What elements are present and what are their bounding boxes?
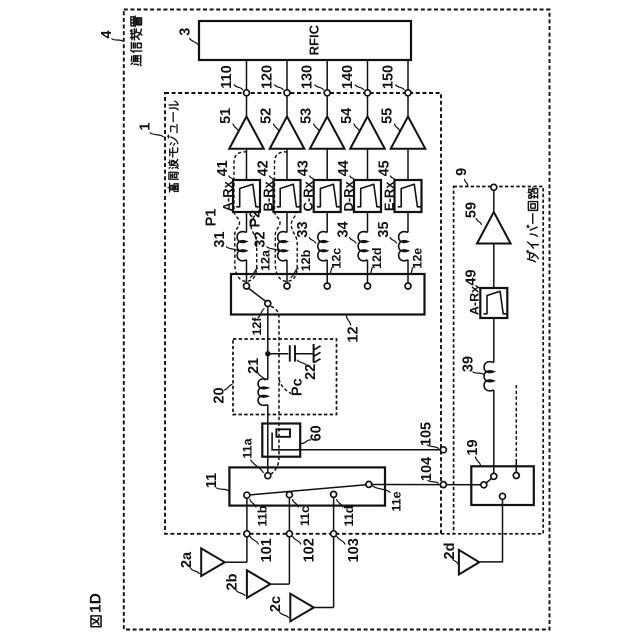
filter 44 D-Rx xyxy=(354,180,381,212)
wire terminal to amp 55 xyxy=(407,96,409,117)
node 11a xyxy=(265,473,271,479)
high-frequency module box 1 xyxy=(165,93,441,534)
svg-text:31: 31 xyxy=(212,231,228,247)
antenna 2a xyxy=(201,548,225,576)
diversity circuit dashed box 9 xyxy=(454,187,544,534)
wire 11b to terminal 101 xyxy=(246,498,248,531)
svg-text:1: 1 xyxy=(138,123,154,131)
svg-text:60: 60 xyxy=(309,425,325,441)
svg-text:12d: 12d xyxy=(370,247,384,269)
svg-text:49: 49 xyxy=(464,269,480,285)
svg-text:12c: 12c xyxy=(330,248,344,269)
node 11e xyxy=(366,481,372,487)
switch arm 11b to 11e xyxy=(250,485,366,495)
svg-text:2a: 2a xyxy=(179,551,195,568)
label tsushin-souchi (communication device) xyxy=(130,16,141,66)
inductor 21 xyxy=(258,379,268,406)
antenna 2c xyxy=(290,594,314,622)
wire inductor 39 to switch 19 xyxy=(493,390,495,473)
dashed alternate line xyxy=(515,385,517,459)
svg-text:2c: 2c xyxy=(268,596,284,612)
svg-text:54: 54 xyxy=(339,108,355,124)
node 19 down contact xyxy=(500,493,506,499)
inductor 34 xyxy=(358,232,367,261)
filter 45 E-Rx xyxy=(395,180,422,212)
wire 11c to terminal 102 xyxy=(288,498,290,531)
dashed path Pc from 12f to 11a xyxy=(271,306,279,474)
antenna 2b xyxy=(247,570,271,598)
svg-text:9: 9 xyxy=(454,168,470,176)
switch arm 12f to 12a xyxy=(249,289,266,302)
wire amp 59 to filter 49 xyxy=(493,244,495,289)
wire terminal to amp 54 xyxy=(367,96,369,117)
node 12a xyxy=(244,283,250,289)
figure title 図1D xyxy=(91,616,101,627)
wire amp to filter 44 xyxy=(367,149,369,180)
svg-text:D-Rx: D-Rx xyxy=(341,180,356,211)
node terminal 103 xyxy=(331,531,337,537)
svg-text:43: 43 xyxy=(296,160,312,176)
filter 43 C-Rx xyxy=(314,180,341,212)
wire inductor to node 12c xyxy=(326,260,328,283)
wire filter to inductor 35 xyxy=(407,212,409,232)
amplifier 55 xyxy=(391,117,426,149)
svg-text:150: 150 xyxy=(381,65,397,89)
label koushuuha-module (high frequency module) xyxy=(168,101,179,192)
svg-text:Pc: Pc xyxy=(290,378,306,396)
node 11b xyxy=(244,492,250,498)
node 12e xyxy=(405,283,411,289)
node 12d xyxy=(365,283,371,289)
wire filter 49 to inductor 39 xyxy=(493,318,495,363)
coupler box 60 xyxy=(262,424,300,457)
svg-text:A-Rx: A-Rx xyxy=(220,180,235,211)
wire RFIC to terminal 120 xyxy=(286,60,288,90)
filter 41 A-Rx xyxy=(233,180,260,212)
wire amp to filter 42 xyxy=(286,149,288,180)
wire RFIC to terminal 110 xyxy=(246,60,248,90)
svg-text:12a: 12a xyxy=(259,249,273,271)
svg-text:11c: 11c xyxy=(298,506,312,526)
node 19 dashed contact xyxy=(513,473,519,479)
svg-text:130: 130 xyxy=(300,65,316,89)
amplifier 53 xyxy=(310,117,345,149)
inductor 33 xyxy=(318,232,327,261)
svg-text:3: 3 xyxy=(178,28,194,36)
amplifier 59 xyxy=(477,212,511,244)
wire amp to filter 41 xyxy=(246,149,248,180)
svg-text:4: 4 xyxy=(99,30,115,38)
group outline P2 xyxy=(275,152,298,281)
svg-text:140: 140 xyxy=(340,65,356,89)
node 12f xyxy=(265,301,271,307)
svg-text:59: 59 xyxy=(464,202,480,218)
wire inductor to node 12b xyxy=(286,260,288,283)
svg-text:19: 19 xyxy=(465,439,481,455)
svg-text:C-Rx: C-Rx xyxy=(301,180,316,211)
svg-text:22: 22 xyxy=(303,364,319,380)
wire RFIC to terminal 140 xyxy=(367,60,369,90)
RFIC U3 xyxy=(199,21,411,60)
inductor 35 xyxy=(399,232,408,261)
svg-text:11a: 11a xyxy=(240,437,254,458)
svg-text:35: 35 xyxy=(376,221,392,237)
node 11d xyxy=(331,491,337,497)
svg-text:P2: P2 xyxy=(247,210,263,228)
svg-text:RFIC: RFIC xyxy=(307,24,322,55)
wire inductor to node 12e xyxy=(407,260,409,283)
svg-text:11d: 11d xyxy=(342,506,356,527)
filter 42 B-Rx xyxy=(274,180,301,212)
node terminal 102 xyxy=(286,531,292,537)
wire filter to inductor 34 xyxy=(367,212,369,232)
node terminal 105 xyxy=(440,447,446,453)
svg-text:11: 11 xyxy=(204,473,220,488)
switch arm in box 19 xyxy=(486,478,491,483)
svg-text:45: 45 xyxy=(377,160,393,176)
node terminal 140 xyxy=(365,90,371,96)
node terminal 150 xyxy=(405,90,411,96)
inductor 31 xyxy=(237,232,246,261)
wire terminal to amp 51 xyxy=(246,96,248,117)
node 12c xyxy=(324,283,330,289)
svg-text:21: 21 xyxy=(246,358,262,374)
svg-text:101: 101 xyxy=(259,538,275,562)
wire filter to inductor 33 xyxy=(326,212,328,232)
wire amp to filter 45 xyxy=(407,149,409,180)
svg-text:104: 104 xyxy=(419,457,435,481)
inductor 32 xyxy=(278,232,287,261)
svg-text:34: 34 xyxy=(336,221,352,237)
node 11c xyxy=(286,492,292,498)
coupler element xyxy=(276,429,290,437)
wire RFIC to terminal 130 xyxy=(326,60,328,90)
wire amp to filter 43 xyxy=(326,149,328,180)
communication device box 4 xyxy=(124,10,550,630)
svg-text:102: 102 xyxy=(302,538,318,562)
matching circuit box 12 xyxy=(231,274,425,315)
diversity switch box 19 xyxy=(471,466,534,505)
inductor 39 xyxy=(484,362,494,391)
node 19 left contact xyxy=(481,482,487,488)
svg-text:12b: 12b xyxy=(299,249,313,271)
wire terminal to amp 52 xyxy=(286,96,288,117)
svg-text:1D: 1D xyxy=(88,593,105,613)
filter 49 A-Rx xyxy=(480,288,507,318)
matching circuit dashed box 20 xyxy=(233,339,337,415)
node terminal 120 xyxy=(284,90,290,96)
wire coupler to terminal 105 xyxy=(300,449,440,451)
svg-text:33: 33 xyxy=(295,221,311,237)
antenna 2d xyxy=(459,550,479,575)
svg-text:12e: 12e xyxy=(411,248,425,269)
svg-text:55: 55 xyxy=(379,108,395,124)
svg-text:105: 105 xyxy=(418,422,434,446)
wire filter to inductor 32 xyxy=(286,212,288,232)
wire 11d to terminal 103 xyxy=(333,498,335,531)
node terminal 104 xyxy=(440,482,446,488)
svg-text:12: 12 xyxy=(346,326,362,342)
wire inductor to node 12d xyxy=(367,260,369,283)
svg-text:E-Rx: E-Rx xyxy=(381,181,396,211)
node diversity output terminal xyxy=(491,184,497,190)
wire filter to inductor 31 xyxy=(246,212,248,232)
svg-text:42: 42 xyxy=(256,160,272,176)
junction node xyxy=(265,351,270,356)
amplifier 54 xyxy=(350,117,385,149)
node 19 up contact xyxy=(491,473,497,479)
wire 11e to diversity switch 19 xyxy=(372,484,481,486)
svg-text:120: 120 xyxy=(260,65,276,89)
wire node 12f down to coupler 60 xyxy=(267,306,269,379)
group outline P1 xyxy=(234,152,257,281)
node terminal 130 xyxy=(324,90,330,96)
node 12b xyxy=(284,283,290,289)
node terminal 110 xyxy=(244,90,250,96)
capacitor 22 xyxy=(268,353,289,355)
svg-text:12f: 12f xyxy=(250,317,264,336)
svg-text:11b: 11b xyxy=(255,505,269,526)
wire inductor to node 12a xyxy=(246,260,248,283)
amplifier 52 xyxy=(270,117,305,149)
svg-text:A-Rx: A-Rx xyxy=(468,286,482,315)
wire terminal to amp 59 xyxy=(493,190,495,212)
svg-text:53: 53 xyxy=(299,108,315,124)
svg-text:2d: 2d xyxy=(442,543,458,560)
antenna switch box 11 xyxy=(229,467,385,505)
svg-text:52: 52 xyxy=(258,108,274,124)
ground xyxy=(313,344,315,363)
wire RFIC to terminal 150 xyxy=(407,60,409,90)
label diversity circuit xyxy=(527,188,538,262)
wire terminal to amp 53 xyxy=(326,96,328,117)
svg-text:44: 44 xyxy=(336,160,352,176)
svg-text:51: 51 xyxy=(218,108,234,124)
svg-text:103: 103 xyxy=(346,538,362,562)
svg-text:32: 32 xyxy=(252,231,268,247)
amplifier 51 xyxy=(229,117,264,149)
svg-text:B-Rx: B-Rx xyxy=(260,180,275,211)
svg-text:41: 41 xyxy=(215,160,231,176)
svg-text:11e: 11e xyxy=(390,491,404,511)
svg-text:P1: P1 xyxy=(204,209,220,227)
svg-text:2b: 2b xyxy=(225,573,241,590)
svg-text:110: 110 xyxy=(219,65,235,88)
node terminal 101 xyxy=(244,531,250,537)
svg-text:39: 39 xyxy=(461,356,477,372)
wire switch 19 to antenna 2d xyxy=(479,499,502,562)
